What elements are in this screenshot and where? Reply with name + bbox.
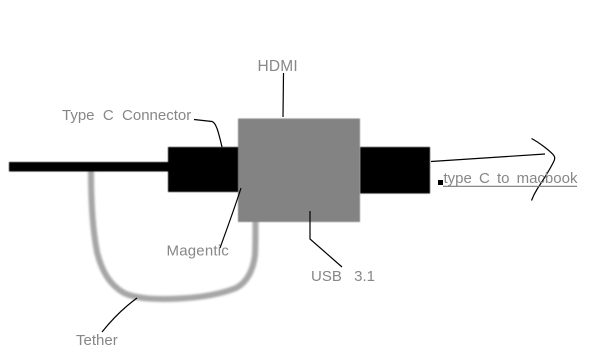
tether (gray cord) [91,171,256,299]
right connector block (black box) [360,147,430,194]
type-C connector block (left black box) [168,147,239,192]
arrow shaft (to macbook) [431,154,545,162]
leader line HDMI [282,73,285,117]
arrow head curve [532,139,555,201]
leader line Tether [102,298,137,332]
leader line Type C Connector [194,120,222,148]
bullet square [438,180,443,185]
svg-text:type C to macbook: type C to macbook [444,170,578,187]
svg-text:Type C Connector: Type C Connector [62,107,191,124]
svg-text:Magentic: Magentic [167,243,230,260]
svg-text:HDMI: HDMI [258,58,298,75]
leader line Magentic [220,188,241,248]
svg-text:Tether: Tether [76,332,118,349]
svg-text:USB 3.1: USB 3.1 [311,268,375,285]
underline of label [443,185,577,187]
leader line USB 3.1 [310,211,342,267]
cable (left lead) [9,162,170,172]
adapter body (gray box) [238,119,360,223]
